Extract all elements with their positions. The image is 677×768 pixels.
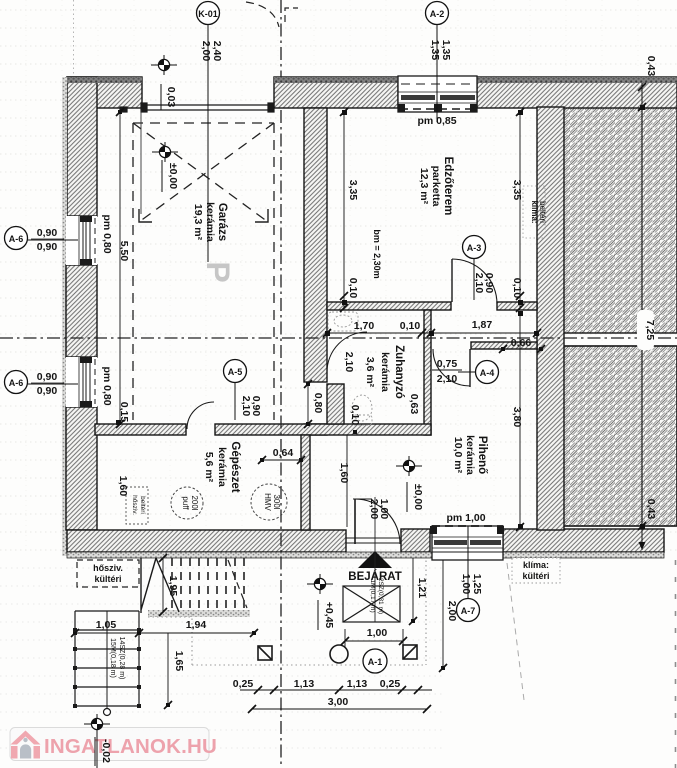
dim 7,25 neighbour [637,103,656,530]
dim 1,25 1,00 window A-7 [460,574,483,595]
dim 1,00 2,00 entrance door [368,499,390,520]
svg-text:2,10: 2,10 [240,396,252,417]
svg-text:2,00: 2,00 [368,499,380,520]
dim 0,90 2,10 door A-3 [473,273,495,294]
room zuhanyzo label [364,345,405,399]
stairs [75,611,139,716]
svg-text:INGATLANOK.HU: INGATLANOK.HU [44,735,217,758]
survey marker 0,03 [151,55,177,110]
svg-text:HMV: HMV [263,493,272,511]
svg-text:K-01: K-01 [198,9,218,19]
column circle [330,645,348,663]
svg-text:5,6 m²: 5,6 m² [203,452,215,483]
dashed corner at top [285,8,298,22]
dimension anchor squares [73,105,645,707]
svg-text:0,15: 0,15 [118,402,130,423]
axis bubble A-6 lower [5,371,79,398]
faint scan grid vertical [26,0,638,555]
svg-text:1,65: 1,65 [173,651,185,672]
svg-text:1,05: 1,05 [96,619,117,631]
survey marker terrace 0,45 [307,574,335,630]
garage door lines [120,103,274,112]
svg-text:A-7: A-7 [461,606,476,616]
garage cross diagonal 1 [133,123,268,222]
sink fixture [328,312,358,331]
svg-text:klíma:: klíma: [530,200,539,223]
dim 0,90 2,10 door A-5 [240,396,262,417]
svg-text:7,25: 7,25 [644,320,656,341]
svg-text:A-5: A-5 [228,367,243,377]
svg-text:puff: puff [181,496,190,510]
svg-text:300l: 300l [272,494,281,509]
svg-text:1,13: 1,13 [347,678,368,690]
svg-text:beltéri: beltéri [139,496,146,514]
window W2 piheno bottom [430,526,504,560]
dim 2,00 terrace [439,560,458,672]
interior wall edzoterem bottom left part [327,302,451,310]
svg-text:Gépészet: Gépészet [229,441,241,492]
garage cross arrowheads [139,209,268,222]
insulation strip bottom wall [67,552,664,558]
column square left [258,646,272,660]
svg-text:kerámia: kerámia [379,352,391,392]
svg-text:bm = 2,30m: bm = 2,30m [372,229,382,278]
section line vertical [280,0,282,768]
svg-text:12,3 m²: 12,3 m² [418,168,430,205]
svg-text:0,64: 0,64 [273,447,294,459]
svg-text:±0,00: ±0,00 [167,163,179,189]
interior wall below garage door gap [304,424,327,435]
svg-text:2,10: 2,10 [437,373,458,385]
svg-text:pm 1,00: pm 1,00 [446,512,485,524]
svg-text:2,10: 2,10 [473,273,485,294]
wall bottom pier right of entrance [401,529,430,552]
svg-text:A-6: A-6 [9,234,24,244]
svg-text:Edzőterem: Edzőterem [442,157,454,216]
dim 1,70 0,10 zuhanyzo [323,320,435,337]
axis bubble A-4 [458,361,499,384]
svg-text:pm 0,85: pm 0,85 [417,115,456,127]
svg-text:A-1: A-1 [368,657,383,667]
wall left pier 3 [66,407,97,530]
svg-text:parketta: parketta [430,166,442,207]
svg-text:0,25: 0,25 [380,678,401,690]
entrance door leaf and arc [346,499,401,544]
svg-text:2,10: 2,10 [343,352,355,373]
watermark [10,728,217,761]
wall bottom left [67,530,346,552]
svg-text:19,3 m²: 19,3 m² [192,204,204,241]
puff tank [171,487,203,519]
svg-text:1,87: 1,87 [472,319,493,331]
dim 1,65 [164,633,185,709]
door A-3 leaf and arc [452,259,497,304]
klima belteri label [523,186,547,238]
dim 1,95 pergola [159,554,179,616]
dim 3,35 0,10 edzoterem left [340,108,359,312]
entrance centre line [374,497,376,622]
wall left pier 2 [66,265,97,357]
dim 1,60 hall [338,435,350,527]
dim row 0,25 1,13 1,13 0,25 [233,678,432,694]
wall step zuhanyzo south-west [327,384,344,424]
axis bubble A-6 upper [5,227,79,254]
room edzoterem label [418,157,454,216]
plot diagonal dashed [507,563,524,700]
toilet fixture [352,395,372,425]
svg-text:1,70: 1,70 [354,320,375,332]
dim 0,75 2,10 door A-4 [432,358,462,385]
top-left dotted guide [73,0,75,77]
svg-text:1,94: 1,94 [186,619,207,631]
wall top-left corner horizontal [67,77,142,108]
svg-text:0,10: 0,10 [511,278,523,299]
axis bubble A-2 [426,2,449,123]
axis bubble K-01 [197,2,220,263]
svg-text:kerámia: kerámia [204,202,216,242]
svg-text:3,35: 3,35 [511,180,523,201]
svg-text:1,21: 1,21 [416,578,428,599]
interior wall piheno top [471,342,537,349]
svg-text:hősziv.: hősziv. [93,563,123,573]
stair step end markers [73,628,141,708]
svg-text:kültéri: kültéri [94,574,121,584]
dim 1,05 stairs [71,619,143,637]
svg-text:A-4: A-4 [480,368,495,378]
right page edge dashes [675,560,677,768]
svg-text:5,50: 5,50 [118,241,130,262]
interior wall gepeszet top / zuhanyzo bottom right part [215,424,431,435]
wall top right [477,77,677,108]
interior wall gepeszet top / zuhanyzo bottom left part [95,424,186,435]
interior wall zuhanyzo right vertical [424,310,431,435]
window W1 edzoterem top [398,76,477,112]
svg-text:-0,02: -0,02 [100,739,112,763]
svg-text:0,43: 0,43 [645,56,657,77]
svg-text:hősziv.: hősziv. [131,495,138,515]
svg-text:1,95: 1,95 [167,576,179,597]
wall right (between house and neighbour) [537,107,564,530]
svg-text:0,80: 0,80 [312,393,324,414]
svg-text:klíma:: klíma: [523,560,549,570]
svg-text:kültéri: kültéri [522,571,549,581]
svg-text:+0,45: +0,45 [323,602,335,629]
svg-text:200l: 200l [190,495,199,510]
garage parking dashed box [133,123,274,420]
dim 1,35 1,35 window [429,40,452,61]
terrace dotted boundary [148,556,426,665]
dim 0,43 bottom [639,499,658,550]
svg-text:14SZ(0,28 m): 14SZ(0,28 m) [118,637,125,680]
pergola diagonal dashed [228,560,247,608]
svg-text:1,35: 1,35 [429,40,441,61]
svg-text:0,43: 0,43 [645,499,657,520]
wall top centre [274,77,398,108]
svg-text:3,6 m²: 3,6 m² [364,357,376,388]
entrance mat box [343,586,400,622]
insulation strip left wall [62,77,67,556]
svg-text:2,00: 2,00 [446,601,458,622]
svg-text:1,13: 1,13 [294,678,315,690]
survey marker -0,02 [84,714,112,768]
svg-text:0,90: 0,90 [37,227,58,239]
svg-text:1,60: 1,60 [117,476,129,497]
neighbour building lower block [563,346,677,526]
svg-text:1M(0,17 m): 1M(0,17 m) [369,579,376,612]
dim 3,35 0,10 edzoterem right [511,108,524,312]
svg-text:A-6: A-6 [9,378,24,388]
svg-text:10,0 m²: 10,0 m² [452,437,464,474]
interior wall edzoterem bottom right part [497,302,537,310]
svg-text:15M(0,18 m): 15M(0,18 m) [109,638,116,678]
svg-text:2SZ(0,31 m): 2SZ(0,31 m) [377,578,384,614]
section line horizontal [0,337,677,339]
room gepeszet label [203,441,241,492]
column square right [403,645,417,659]
pergola gravel strip [148,610,250,617]
heat pump outdoor dashed box [77,560,139,587]
svg-text:0,90: 0,90 [37,385,58,397]
interior wall garage-rooms vertical [304,108,327,382]
door A-5 arc [187,402,214,429]
room garage label [192,202,228,242]
axis bubble A-7 [457,526,480,622]
wall bottom right [503,529,664,552]
svg-text:0,63: 0,63 [408,394,420,415]
svg-text:Zuhanyzó: Zuhanyzó [393,345,405,399]
svg-text:beltéri: beltéri [538,201,547,223]
dim 1,94 [139,619,258,637]
dim 0,80 garage door to gepeszet [304,380,324,428]
svg-text:0,03: 0,03 [165,87,177,108]
svg-text:A-2: A-2 [430,9,445,19]
svg-text:0,10: 0,10 [347,278,359,299]
wall top-left corner vertical [67,77,97,216]
dim 5,50 garage [116,108,130,428]
svg-text:pm 0,80: pm 0,80 [101,366,113,405]
svg-text:Garázs: Garázs [216,203,228,241]
dim 1,00 entrance width [341,627,407,647]
svg-text:pm 0,80: pm 0,80 [101,214,113,253]
svg-text:0,10: 0,10 [349,405,361,426]
svg-text:0,75: 0,75 [437,358,458,370]
room piheno label [452,435,488,475]
svg-text:kerámia: kerámia [216,447,228,487]
dim 0,66 [499,337,545,353]
svg-text:1,60: 1,60 [338,463,350,484]
svg-text:±0,00: ±0,00 [412,484,424,510]
dim 1,21 [409,558,428,625]
svg-text:3,35: 3,35 [347,180,359,201]
window L1 left wall [66,216,97,265]
garage door reveal line [140,110,142,214]
svg-text:0,10: 0,10 [400,320,421,332]
dashed swing at top [246,2,279,27]
door A-4 leaf and arc [433,349,470,387]
shower corner arc [327,332,367,372]
insulation strip on top wall [67,77,142,83]
svg-text:Pihenő: Pihenő [476,436,488,474]
svg-text:2,00: 2,00 [200,41,212,62]
svg-text:P: P [200,261,236,282]
dim 3,80 piheno [511,313,524,531]
svg-text:A-3: A-3 [467,243,482,253]
svg-text:0,25: 0,25 [233,678,254,690]
stair direction marks [141,558,179,613]
survey marker hall 0,00 [396,456,424,512]
axis bubble A-5 [224,360,247,421]
entrance arrow [358,551,392,568]
heat pump indoor dashed box [126,487,148,524]
svg-text:1,00: 1,00 [367,627,388,639]
dim 0,43 top [638,56,657,107]
axis bubble A-1 [363,649,387,673]
dim 2,40 2,00 garage door [200,41,223,62]
interior wall gepeszet right vertical [301,435,310,530]
dim 3,00 [248,696,431,713]
neighbour building upper block [563,107,677,333]
pergola joists [172,558,244,612]
svg-text:3,80: 3,80 [511,407,523,428]
dim 0,64 [258,447,305,464]
axis bubble A-3 [463,236,486,301]
svg-text:0,66: 0,66 [511,337,532,349]
klima kulteri label [512,558,560,583]
svg-text:0,90: 0,90 [37,371,58,383]
garage cross diagonal 2 [139,123,274,222]
svg-text:1,00: 1,00 [460,574,472,595]
dim 1,87 corridor [431,319,541,337]
HMV tank [251,484,287,520]
svg-text:3,00: 3,00 [328,696,349,708]
window L2 left wall [66,357,97,407]
svg-text:kerámia: kerámia [464,435,476,475]
svg-text:0,90: 0,90 [37,241,58,253]
survey marker garage 0,00 [152,142,179,192]
faint scan grid horizontal [0,10,677,550]
